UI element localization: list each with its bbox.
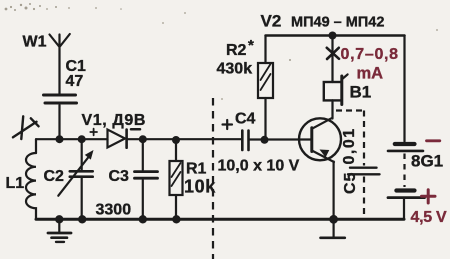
junction node: C4/R2/base xyxy=(261,136,269,144)
earphone B1 xyxy=(324,74,371,118)
wire: main signal line diode to C4 xyxy=(128,138,242,140)
wire: left tank vertical xyxy=(35,139,37,153)
wire: B1 branch from rail xyxy=(331,36,333,83)
junction node: emitter/rail xyxy=(329,215,338,224)
battery 8G1 xyxy=(388,36,447,227)
svg-text:МП49 – МП42: МП49 – МП42 xyxy=(291,15,384,31)
capacitor C4 xyxy=(218,111,300,175)
wire: tank top xyxy=(36,138,108,140)
wire: bottom ground rail xyxy=(36,218,404,221)
svg-text:V2: V2 xyxy=(261,12,282,31)
svg-text:3300: 3300 xyxy=(96,202,132,219)
capacitor C1 xyxy=(44,58,87,137)
junction node: C3 bottom xyxy=(139,215,147,223)
junction node: C2 top xyxy=(78,135,86,143)
inductor L1 xyxy=(6,153,37,218)
wire: top rail xyxy=(266,34,405,37)
variable capacitor C2 xyxy=(44,139,94,219)
resistor R1 xyxy=(170,140,217,219)
svg-text:R2: R2 xyxy=(226,42,247,59)
diode V1 xyxy=(82,112,147,148)
svg-text:R1: R1 xyxy=(186,161,207,178)
svg-text:4,5 V: 4,5 V xyxy=(411,209,447,226)
svg-text:C2: C2 xyxy=(44,168,65,185)
svg-text:C3: C3 xyxy=(109,168,130,185)
transistor V2 xyxy=(299,118,341,219)
svg-text:C5: C5 xyxy=(342,172,359,194)
svg-text:W1: W1 xyxy=(23,34,47,51)
ground xyxy=(48,219,71,242)
svg-text:B1: B1 xyxy=(350,83,372,102)
junction node: antenna/tank xyxy=(56,135,64,143)
svg-text:47: 47 xyxy=(66,73,84,90)
svg-text:mA: mA xyxy=(357,65,384,83)
junction node: R1 bottom xyxy=(172,215,180,223)
svg-text:*: * xyxy=(248,37,254,54)
capacitor C3 xyxy=(109,139,158,219)
junction node: ground stub xyxy=(55,215,63,223)
capacitor C5 (dashed optional) xyxy=(336,111,380,218)
chassis symbol under emitter xyxy=(321,221,345,238)
svg-text:10k: 10k xyxy=(184,177,216,197)
svg-text:10,0 x 10 V: 10,0 x 10 V xyxy=(218,158,300,175)
svg-text:8G1: 8G1 xyxy=(411,152,443,171)
svg-text:0,01: 0,01 xyxy=(341,127,358,164)
current test point x xyxy=(327,48,339,59)
junction node: C2 bottom xyxy=(78,215,86,223)
svg-text:430k: 430k xyxy=(217,61,253,78)
junction node: R1 top xyxy=(172,136,180,144)
antenna W1 xyxy=(23,34,70,94)
svg-text:V1, Д9В: V1, Д9В xyxy=(82,112,147,129)
junction node: C3 top xyxy=(139,135,147,143)
junction node: top rail / B1 xyxy=(329,32,337,40)
resistor R2 xyxy=(217,36,274,140)
svg-text:L1: L1 xyxy=(6,175,25,192)
wire: C4 to base xyxy=(250,138,312,140)
ferrite tuning arrow (L1 core adjust) xyxy=(13,116,39,139)
dashed section divider xyxy=(212,98,214,259)
svg-text:0,7–0,8: 0,7–0,8 xyxy=(341,46,399,63)
svg-text:C4: C4 xyxy=(235,111,256,128)
